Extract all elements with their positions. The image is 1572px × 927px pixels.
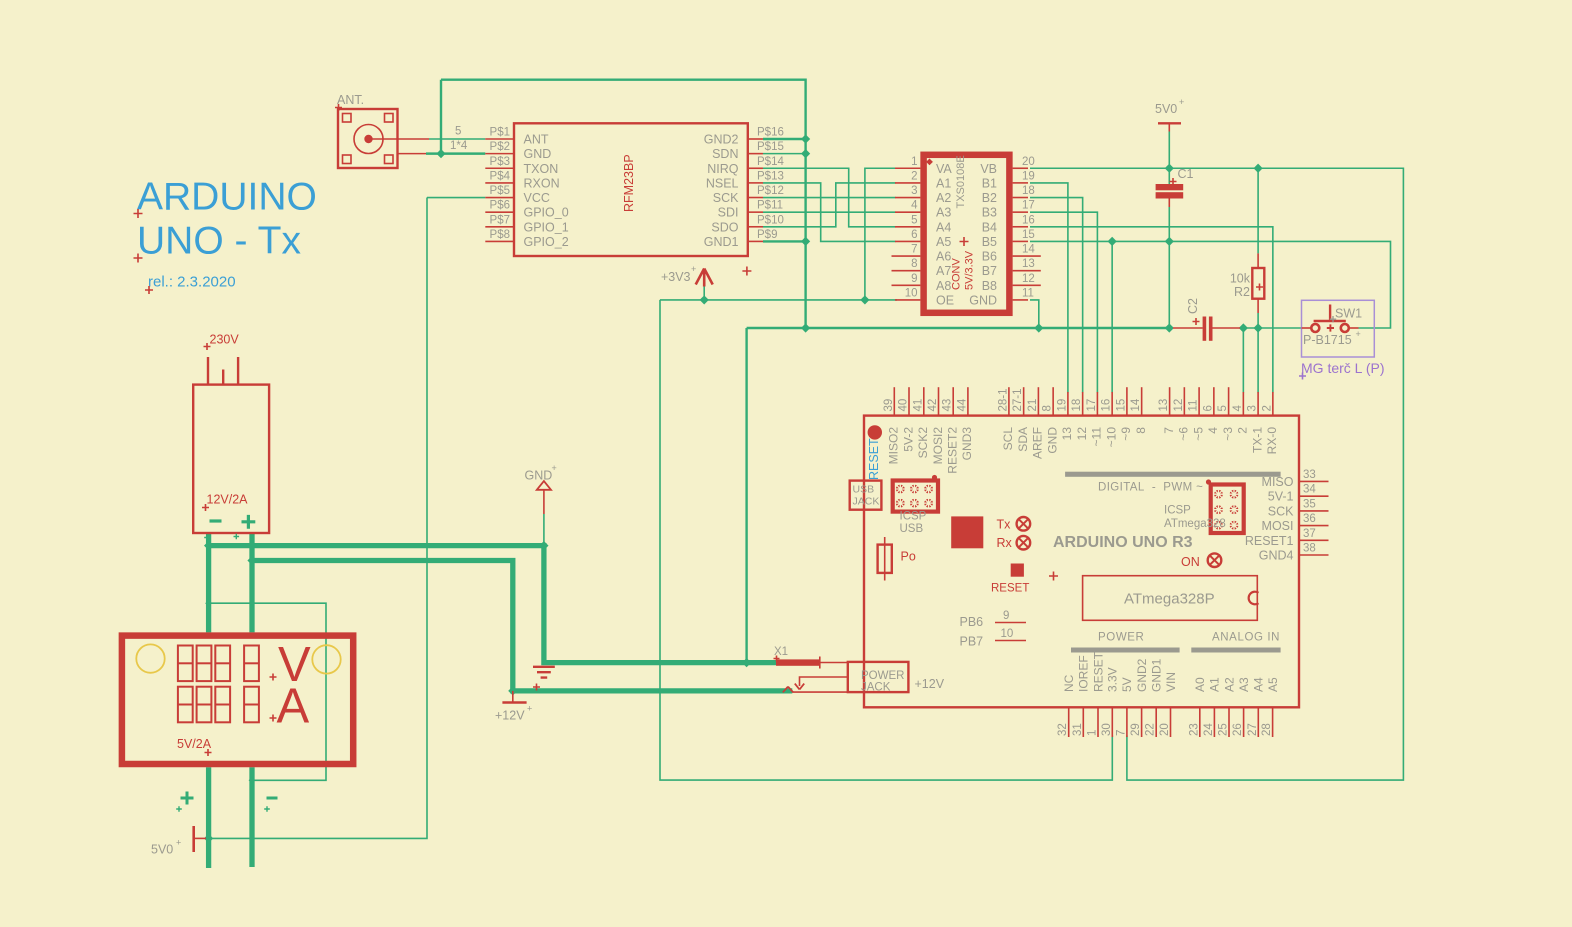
CONV pin 3 stub [895, 197, 920, 199]
meter out plus mark [181, 792, 194, 805]
svg-text:5V/3.3V: 5V/3.3V [964, 250, 976, 290]
svg-text:P$11: P$11 [757, 200, 783, 212]
svg-text:TXON: TXON [524, 162, 559, 176]
svg-text:+: + [176, 838, 181, 848]
svg-text:P$7: P$7 [490, 214, 510, 226]
ANT corner square BL [343, 155, 352, 164]
earth ground symbol [533, 667, 555, 678]
svg-text:8: 8 [911, 258, 917, 270]
svg-text:B3: B3 [982, 206, 997, 220]
SW1 terminal left [1311, 324, 1319, 332]
capacitor C1 plate 1 [1156, 184, 1184, 190]
svg-text:A7: A7 [936, 264, 951, 278]
junction GND sym [539, 541, 548, 550]
Arduino right pin 37 stub [1299, 539, 1329, 541]
svg-text:6: 6 [1202, 405, 1214, 411]
fat wire meter out left [206, 767, 211, 868]
capacitor C2 right lead [1213, 327, 1241, 329]
svg-text:5V/2A: 5V/2A [177, 737, 212, 751]
CONV pin 18 stub [1013, 197, 1028, 199]
RFM23BP pin P$5 stub [485, 197, 514, 199]
ANT circle [354, 125, 383, 154]
CONV pin 19 stub [1013, 182, 1028, 184]
svg-text:35: 35 [1303, 498, 1316, 510]
meter minus pin cross [264, 806, 270, 812]
svg-text:10k: 10k [1230, 272, 1251, 286]
svg-text:~11: ~11 [1090, 427, 1104, 447]
CONV pin 11 stub [1013, 299, 1028, 301]
svg-text:P$13: P$13 [757, 170, 784, 182]
svg-text:24: 24 [1203, 723, 1215, 736]
junction P$15 [801, 149, 810, 158]
Arduino bottom pin 31 stub [1082, 707, 1084, 737]
svg-text:MISO2: MISO2 [887, 427, 901, 465]
svg-text:VIN: VIN [1164, 672, 1178, 692]
svg-text:P$6: P$6 [490, 200, 510, 212]
CONV pin 10 stub [895, 299, 920, 301]
CONV pin 20 stub [1013, 167, 1028, 169]
svg-text:AREF: AREF [1031, 427, 1045, 459]
Arduino bottom pin 29 stub [1141, 707, 1143, 737]
svg-text:GND3: GND3 [960, 427, 974, 461]
wire 3V3 rail to Arduino 3.3V pin [660, 300, 1112, 780]
svg-text:SCK2: SCK2 [916, 427, 930, 459]
svg-text:~9: ~9 [1119, 427, 1133, 441]
svg-text:B6: B6 [982, 250, 997, 264]
RFM23BP pin P$1 stub [485, 138, 514, 140]
Arduino top pin 3 stub [1257, 392, 1259, 416]
RFM23BP pin P$11 stub [748, 211, 763, 213]
junction 5V0 C1 [1165, 164, 1174, 173]
svg-text:ATmega328: ATmega328 [1164, 518, 1226, 530]
junction C2 left [1165, 323, 1174, 332]
svg-text:36: 36 [1303, 513, 1316, 525]
svg-text:SW1: SW1 [1335, 307, 1362, 321]
svg-text:12: 12 [1075, 427, 1089, 441]
wire B1 to Arduino pin19 [1030, 183, 1068, 393]
svg-text:ATmega328P: ATmega328P [1124, 591, 1215, 608]
svg-text:B8: B8 [982, 279, 997, 293]
RFM23BP pin P$8 stub [485, 240, 514, 242]
svg-text:P$4: P$4 [490, 170, 511, 182]
Arduino top pin 19 stub [1067, 392, 1069, 416]
wire C1 top link [1168, 168, 1170, 184]
ICSP ATmega pad 3 [1214, 505, 1223, 514]
ANT center pad [364, 135, 372, 143]
C2 origin cross [1193, 318, 1200, 325]
ICSP USB pad 4 [896, 499, 905, 508]
wire meter bypass loop [209, 603, 326, 780]
Arduino bottom pin 24 stub [1213, 707, 1215, 737]
wire +3V3 stem [703, 287, 705, 300]
title origin cross 2 [134, 254, 143, 263]
5V/2A origin cross [205, 749, 212, 756]
subtitle origin cross [145, 286, 153, 294]
230V origin cross [204, 343, 211, 350]
230V prong right [237, 357, 239, 385]
Arduino top pin 15 stub [1126, 387, 1128, 415]
svg-text:SDN: SDN [712, 147, 738, 161]
PB6 pin line [995, 622, 1026, 624]
junction X1 end [774, 659, 780, 665]
svg-text:Po: Po [901, 550, 916, 564]
RFM23BP pin P$3 stub [485, 167, 514, 169]
ANT origin cross [335, 104, 342, 111]
junction supply plus [247, 556, 256, 565]
Arduino bottom pin 22 stub [1155, 707, 1157, 737]
wire B5 branch to Arduino pin16 [1111, 241, 1113, 392]
svg-text:17: 17 [1022, 200, 1035, 212]
ANT pin 1 stub [398, 153, 427, 155]
svg-text:15: 15 [1115, 399, 1127, 412]
meter digit row2 cell4 [244, 687, 259, 723]
svg-text:GPIO_2: GPIO_2 [524, 235, 569, 249]
junction GND rail X1 [742, 658, 751, 667]
svg-text:16: 16 [1101, 399, 1113, 412]
svg-text:4: 4 [1206, 427, 1220, 434]
svg-text:PB7: PB7 [960, 635, 984, 649]
SW1 terminal right [1341, 324, 1349, 332]
svg-text:P$12: P$12 [757, 185, 784, 197]
svg-text:29: 29 [1130, 723, 1142, 736]
RFM23BP pin P$6 stub [485, 211, 514, 213]
230V prong left [207, 357, 209, 385]
Arduino bottom pin 20 stub [1170, 707, 1172, 737]
Arduino bottom pin 32 stub [1068, 707, 1070, 737]
capacitor C1 link [1168, 199, 1170, 208]
svg-text:31: 31 [1072, 723, 1084, 736]
LED Tx [1017, 517, 1031, 531]
svg-text:13: 13 [1022, 258, 1035, 270]
ICSP ATmega pad 4 [1230, 505, 1239, 514]
svg-text:GND2: GND2 [1135, 658, 1149, 692]
GND arrow symbol [537, 481, 551, 490]
svg-text:14: 14 [1130, 398, 1142, 411]
supply pin cross left [204, 535, 210, 541]
CONV pin 14 stub [1013, 255, 1041, 257]
svg-text:NIRQ: NIRQ [707, 162, 739, 176]
RFM23BP pin P$16 stub [748, 138, 763, 140]
Arduino top pin 43 stub [952, 387, 954, 415]
svg-text:21: 21 [1027, 399, 1039, 412]
svg-text:30: 30 [1101, 723, 1113, 736]
12V/2A origin cross [202, 504, 209, 511]
connector USB JACK body [850, 481, 882, 510]
wire GND symbol stem green [543, 514, 545, 546]
svg-text:+12V: +12V [495, 709, 525, 723]
svg-text:P$5: P$5 [490, 185, 510, 197]
wire P$13 NSEL to CONV A5 [763, 183, 896, 242]
supply +12V stem [512, 691, 514, 703]
ICSP ATmega pad 2 [1230, 490, 1239, 499]
wire VCC vertical [209, 198, 427, 839]
svg-text:11: 11 [1188, 400, 1200, 412]
svg-text:22: 22 [1145, 723, 1157, 736]
svg-text:DIGITAL - PWM ~: DIGITAL - PWM ~ [1098, 482, 1203, 494]
RFM23BP pin P$7 stub [485, 226, 514, 228]
X1 origin cross [774, 656, 780, 662]
svg-text:RESET: RESET [867, 438, 881, 480]
Arduino reset square [1011, 564, 1024, 577]
CONV pin 9 stub [892, 284, 921, 286]
Arduino top pin 14 stub [1141, 387, 1143, 415]
svg-text:230V: 230V [210, 333, 240, 347]
meter hole left [136, 644, 164, 672]
svg-text:RFM23BP: RFM23BP [622, 154, 636, 212]
svg-text:10: 10 [1001, 628, 1014, 640]
svg-text:SCK: SCK [1268, 504, 1294, 518]
svg-text:MOSI: MOSI [1262, 519, 1294, 533]
svg-text:ICSP: ICSP [900, 511, 927, 523]
svg-text:GND2: GND2 [704, 133, 739, 147]
CONV origin cross [960, 237, 969, 246]
svg-text:+: + [527, 704, 532, 714]
GND symbol stem red [543, 490, 545, 514]
meter digit row1 cell2 [197, 646, 212, 682]
CONV pin 15 stub [1013, 240, 1028, 242]
svg-text:8: 8 [1134, 427, 1148, 434]
svg-text:5V0: 5V0 [151, 843, 173, 857]
svg-text:33: 33 [1303, 469, 1316, 481]
CONV pin 13 stub [1013, 270, 1041, 272]
ICSP ATmega pad 6 [1230, 521, 1239, 530]
svg-text:IOREF: IOREF [1077, 655, 1091, 692]
supply 5V0 top stem [1168, 123, 1170, 131]
ANT corner square TL [343, 114, 352, 123]
svg-text:9: 9 [911, 273, 917, 285]
fat wire minus to GND corner [209, 546, 778, 663]
svg-text:~6: ~6 [1177, 427, 1191, 441]
wire P$15 stub link [763, 153, 806, 155]
RFM23BP pin P$2 stub [485, 153, 514, 155]
supply 5V0 top bar [1158, 122, 1181, 124]
svg-text:38: 38 [1303, 543, 1316, 555]
junction P$16 [801, 134, 810, 143]
svg-text:+3V3: +3V3 [661, 270, 691, 284]
svg-text:44: 44 [956, 398, 968, 411]
Arduino top pin 13 stub [1169, 387, 1171, 415]
fat wire plus to power jack [252, 561, 792, 691]
svg-text:C2: C2 [1186, 298, 1200, 314]
svg-text:ICSP: ICSP [1164, 505, 1191, 517]
origin cross near +3V3 [742, 267, 751, 276]
svg-text:5: 5 [1217, 405, 1229, 411]
svg-text:5V0: 5V0 [1155, 102, 1177, 116]
supply 5V0 bottom stem [194, 837, 206, 839]
supply plus mark [242, 515, 256, 529]
ICSP USB pad 5 [910, 499, 919, 508]
Arduino top pin 21 stub [1037, 387, 1039, 415]
MG origin cross [1299, 373, 1306, 380]
svg-text:A: A [277, 680, 310, 734]
Arduino top pin 41 stub [923, 387, 925, 415]
svg-text:GND: GND [969, 293, 997, 307]
svg-text:VB: VB [980, 162, 997, 176]
junction supply minus [204, 541, 213, 550]
svg-text:P$16: P$16 [757, 127, 784, 139]
svg-text:2: 2 [1261, 405, 1273, 411]
svg-text:Rx: Rx [997, 536, 1013, 550]
Arduino bottom pin 1 stub [1097, 707, 1099, 737]
junction bypass top [205, 600, 212, 607]
Arduino usb pad square [951, 516, 983, 548]
svg-text:B2: B2 [982, 191, 997, 205]
wire VCC P$5 run [427, 197, 485, 199]
svg-text:~5: ~5 [1191, 427, 1205, 441]
svg-text:P$9: P$9 [757, 229, 777, 241]
power supply 12V/2A body [193, 385, 269, 533]
svg-text:1: 1 [911, 156, 917, 168]
svg-text:10: 10 [905, 287, 918, 299]
svg-text:27-1: 27-1 [1012, 388, 1024, 411]
svg-text:+: + [691, 264, 696, 274]
meter digit row2 cell3 [215, 687, 230, 723]
R2 origin cross [1256, 284, 1263, 291]
svg-text:5: 5 [455, 126, 461, 138]
svg-text:15: 15 [1022, 229, 1035, 241]
power symbol +3V3 arrow [696, 269, 713, 287]
X1 end tick [819, 657, 821, 669]
RFM23BP pin P$13 stub [748, 182, 763, 184]
X1 link to jack [821, 662, 848, 664]
svg-text:ANT.: ANT. [337, 93, 364, 107]
svg-text:18: 18 [1071, 399, 1083, 412]
wire P$14 NIRQ to CONV A4 [763, 168, 896, 227]
meter digit row1 cell4 [244, 646, 259, 682]
junction C2-pin4 [1239, 323, 1248, 332]
svg-text:GND: GND [524, 147, 552, 161]
wire VB 5V rail to Arduino 5V pin [1030, 168, 1403, 780]
svg-text:A1: A1 [936, 176, 951, 190]
svg-text:GPIO_1: GPIO_1 [524, 220, 569, 234]
svg-text:7: 7 [1162, 427, 1176, 434]
bar DIGITAL PWM [1065, 472, 1281, 477]
ICSP USB pad 3 [924, 485, 933, 494]
svg-text:13: 13 [1060, 427, 1074, 441]
Arduino top pin 27-1 stub [1023, 387, 1025, 415]
wire GND rail horizontal [747, 327, 1170, 329]
CONV pin 8 stub [892, 270, 921, 272]
SW1 lever [1314, 305, 1346, 322]
svg-text:42: 42 [927, 399, 939, 412]
RFM23BP pin P$9 stub [748, 240, 763, 242]
svg-text:28: 28 [1261, 723, 1273, 736]
svg-text:MISO: MISO [1262, 475, 1294, 489]
svg-text:GND: GND [1045, 427, 1059, 454]
POWER JACK pin2 arrowhead [795, 684, 804, 690]
junction VA on OE rail [860, 295, 869, 304]
CONV pin 1 stub [895, 167, 920, 169]
capacitor C2 left lead [1173, 327, 1203, 329]
svg-text:13: 13 [1158, 399, 1170, 412]
svg-text:JACK: JACK [853, 496, 880, 508]
svg-text:POWER: POWER [861, 670, 904, 682]
SW1 left stub [1302, 327, 1311, 329]
Arduino bottom pin 25 stub [1228, 707, 1230, 737]
svg-text:28-1: 28-1 [997, 388, 1009, 411]
svg-text:A3: A3 [1237, 677, 1251, 692]
svg-text:12: 12 [1173, 399, 1185, 412]
resistor R2 top lead [1257, 253, 1259, 268]
wire P$12 SCK to CONV A2 [763, 197, 896, 199]
Arduino bottom pin 23 stub [1199, 707, 1201, 737]
svg-text:JACK: JACK [861, 682, 891, 694]
junction R2 top [1254, 164, 1263, 173]
earth origin cross [533, 684, 540, 691]
RFM23BP pin P$4 stub [485, 182, 514, 184]
wire pin3 drop [1257, 328, 1259, 393]
svg-text:16: 16 [1022, 214, 1035, 226]
bar ANALOG IN [1191, 648, 1280, 653]
resistor R2 body [1252, 268, 1264, 299]
C1 origin cross [1170, 178, 1177, 185]
junction bypass bottom [249, 777, 256, 784]
fuse Po lead [884, 537, 886, 581]
svg-text:3.3V: 3.3V [1106, 667, 1120, 692]
wire R2 bottom link [1257, 313, 1259, 328]
svg-text:B1: B1 [982, 176, 997, 190]
svg-text:A3: A3 [936, 206, 951, 220]
meter digit row2 cell1 [178, 687, 193, 723]
Arduino top pin 17 stub [1096, 392, 1098, 416]
ICSP ATmega pad 1 [1214, 490, 1223, 499]
svg-text:A4: A4 [936, 220, 951, 234]
svg-text:CONV: CONV [951, 258, 963, 290]
wire CONV VA drop [865, 168, 896, 300]
connector POWER JACK body [848, 662, 909, 692]
header ICSP ATmega body [1211, 485, 1244, 534]
wire ANT pin5 to RFM P$1 [429, 138, 485, 140]
svg-text:~3: ~3 [1221, 427, 1235, 441]
Arduino top pin 6 stub [1213, 387, 1215, 415]
svg-text:7: 7 [1115, 730, 1127, 736]
wire 5V0 top link [1168, 132, 1170, 169]
svg-text:41: 41 [912, 399, 924, 412]
svg-text:P$1: P$1 [490, 127, 510, 139]
svg-text:A2: A2 [936, 191, 951, 205]
svg-text:NC: NC [1062, 674, 1076, 692]
header ICSP USB body [893, 481, 938, 512]
ICSP ATmega pad 5 [1214, 521, 1223, 530]
svg-text:MG terč L (P): MG terč L (P) [1301, 360, 1385, 376]
ANT corner square TR [385, 114, 394, 123]
ICSP ATmega corner marker [1206, 479, 1211, 484]
svg-text:A1: A1 [1208, 677, 1222, 692]
IC CONV TXS0108E body [924, 155, 1010, 313]
Arduino top pin 39 stub [893, 387, 895, 415]
ATmega328P notch circle [1249, 592, 1259, 605]
fuse Po body [878, 545, 892, 573]
junction R2 bottom [1254, 323, 1263, 332]
svg-text:40: 40 [898, 399, 910, 412]
svg-text:20: 20 [1022, 156, 1035, 168]
Arduino bottom pin 27 stub [1257, 707, 1259, 737]
svg-text:rel.: 2.3.2020: rel.: 2.3.2020 [148, 274, 236, 291]
svg-text:RX-0: RX-0 [1265, 427, 1279, 455]
ANT corner square BR [385, 155, 394, 164]
Arduino right pin 38 stub [1299, 554, 1329, 556]
svg-text:2: 2 [1236, 427, 1250, 434]
svg-text:P$14: P$14 [757, 156, 784, 168]
CONV pin 4 stub [895, 211, 920, 213]
svg-text:RXON: RXON [524, 176, 560, 190]
Arduino top pin 5 stub [1228, 387, 1230, 415]
svg-text:27: 27 [1247, 723, 1259, 736]
svg-text:+12V: +12V [915, 677, 945, 691]
svg-text:5V-1: 5V-1 [1268, 490, 1294, 504]
ANT pin 5 stub [398, 138, 430, 140]
svg-text:19: 19 [1056, 399, 1068, 412]
